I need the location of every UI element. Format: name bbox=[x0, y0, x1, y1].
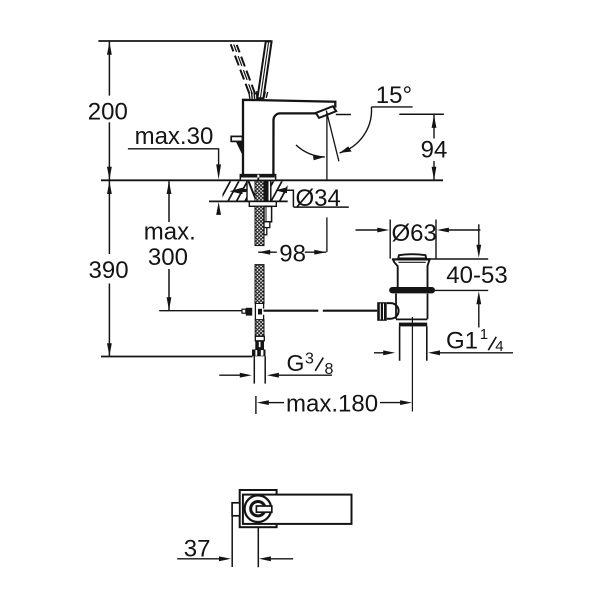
drain cap ledge bbox=[392, 258, 431, 260]
rod knuckle on drain bbox=[387, 303, 399, 319]
stream vertical line bbox=[326, 112, 328, 252]
faucet base plate bbox=[240, 175, 275, 181]
top view outer circle bbox=[245, 495, 272, 522]
15 deg label leader bbox=[371, 106, 412, 108]
dim max.30 arrow down bbox=[216, 164, 221, 179]
top view square body bbox=[240, 490, 277, 527]
drain slip nut black band bbox=[399, 323, 427, 327]
dim max.300 arrow down bbox=[167, 297, 172, 310]
mounting stud bbox=[264, 206, 272, 221]
dim 200 arrow down bbox=[107, 167, 112, 180]
stream tilted 15 line bbox=[326, 111, 339, 162]
counter hatch right bbox=[263, 181, 300, 201]
svg-text:40-53: 40-53 bbox=[446, 262, 507, 289]
drain ext lines O63 bbox=[390, 220, 436, 259]
braided hose below washer bbox=[255, 206, 264, 245]
hole right wall line bbox=[270, 181, 272, 201]
dim max.300 line bbox=[168, 181, 170, 310]
dim 94 top tick bbox=[336, 113, 444, 115]
rod knurled coupler bbox=[377, 302, 387, 321]
top view bar through ring bbox=[256, 506, 271, 512]
svg-text:300: 300 bbox=[148, 244, 188, 271]
dim 40-53 bottom line bbox=[435, 289, 488, 291]
dim 94 arrow up bbox=[432, 115, 437, 128]
dim max.30 leader bbox=[128, 149, 219, 165]
svg-text:3: 3 bbox=[305, 351, 314, 368]
dim max.300 tick line joins pop-up rod bbox=[159, 310, 242, 312]
hose edge lines at rod crossing bbox=[255, 304, 263, 320]
faucet handle hatch at base bbox=[249, 91, 268, 99]
svg-text:390: 390 bbox=[89, 257, 129, 284]
dim 390 arrow up bbox=[107, 181, 112, 194]
top view center line bbox=[257, 527, 259, 567]
counter top surface line bbox=[101, 179, 443, 181]
faucet handle solid bbox=[257, 41, 271, 98]
dim 390 line bbox=[108, 181, 110, 356]
svg-text:max.30: max.30 bbox=[135, 123, 214, 150]
braided hose upper (in hole) bbox=[255, 181, 264, 201]
braided hose below rod bbox=[255, 320, 264, 337]
svg-text:94: 94 bbox=[421, 136, 448, 163]
dim 94 arrow down bbox=[432, 167, 437, 180]
top view left edge line bbox=[231, 516, 233, 567]
top view left tab bbox=[232, 503, 240, 516]
dim 40-53 upper bbox=[478, 224, 480, 246]
top view lever bbox=[243, 495, 352, 524]
svg-text:max.: max. bbox=[144, 219, 196, 246]
faucet body outline bbox=[243, 100, 335, 175]
dim G3/8 bbox=[219, 374, 240, 376]
svg-text:8: 8 bbox=[325, 361, 334, 378]
dim O34 left dart bbox=[230, 188, 243, 195]
drain center line bbox=[411, 317, 413, 412]
drain flange black bbox=[389, 287, 435, 293]
dim 94 line bbox=[433, 115, 435, 180]
dim 200 line bbox=[108, 42, 110, 180]
svg-text:200: 200 bbox=[88, 98, 128, 125]
G3/8 nut bbox=[252, 350, 266, 357]
dim max.180 bbox=[255, 396, 257, 414]
dim 200 arrow up bbox=[107, 42, 112, 55]
drain neck bbox=[393, 261, 429, 288]
pop-up rod bbox=[264, 310, 378, 312]
dim G1 1/4 bbox=[374, 352, 385, 354]
dim O63 arrows bbox=[356, 229, 481, 231]
faucet left lever bracket bbox=[231, 136, 242, 141]
drain body below flange bbox=[396, 294, 428, 320]
dim 98 arrow right bbox=[314, 250, 326, 255]
faucet handle dashed alt position bbox=[231, 44, 250, 93]
hose end dark block bbox=[255, 341, 264, 350]
pop-up rod left fitting bbox=[242, 309, 246, 313]
svg-text:4: 4 bbox=[495, 338, 503, 355]
svg-text:Ø34: Ø34 bbox=[296, 185, 341, 212]
dim 390 arrow down bbox=[107, 343, 112, 356]
svg-text:G: G bbox=[287, 350, 305, 376]
faucet left wedge bbox=[236, 142, 242, 155]
dim 40-53 top line bbox=[427, 258, 488, 260]
hose ferrule bbox=[255, 336, 264, 341]
dim O34 right dart bbox=[275, 187, 287, 193]
dim 98 arrow left bbox=[258, 250, 270, 255]
15 deg arc right bbox=[340, 107, 372, 153]
counter hatch left bbox=[211, 181, 256, 201]
svg-text:G1: G1 bbox=[446, 328, 478, 355]
svg-text:98: 98 bbox=[279, 241, 306, 268]
faucet spout aerator bbox=[316, 106, 336, 118]
braided hose lower bbox=[255, 265, 264, 304]
reference line top (200 dim datum) bbox=[98, 40, 271, 42]
dim max.300 arrow up bbox=[167, 181, 172, 194]
bottom reference line (390 dim) bbox=[101, 356, 253, 358]
svg-text:max.180: max.180 bbox=[286, 390, 378, 417]
drain cap inner line bbox=[398, 261, 425, 263]
drain cap dome bbox=[398, 254, 426, 258]
top view inner ring bbox=[251, 502, 265, 516]
dim max.30 arrow up below slab bbox=[216, 202, 221, 215]
mounting hole left wall bbox=[246, 181, 248, 201]
shank taper line bbox=[249, 181, 257, 200]
dim 98 line bbox=[258, 251, 326, 253]
dim 40-53 lower arrow bbox=[476, 291, 481, 304]
15 deg arc left bbox=[296, 145, 325, 157]
svg-text:1: 1 bbox=[480, 326, 488, 343]
dim O34 leader bbox=[287, 190, 349, 207]
shank right wall dark band bbox=[265, 181, 269, 201]
counter bottom line bbox=[209, 200, 288, 202]
G3/8 tube bbox=[254, 356, 265, 383]
drain tube bbox=[400, 326, 427, 360]
svg-text:Ø63: Ø63 bbox=[392, 220, 437, 247]
svg-text:15°: 15° bbox=[376, 82, 412, 109]
washer under counter bbox=[249, 202, 276, 207]
